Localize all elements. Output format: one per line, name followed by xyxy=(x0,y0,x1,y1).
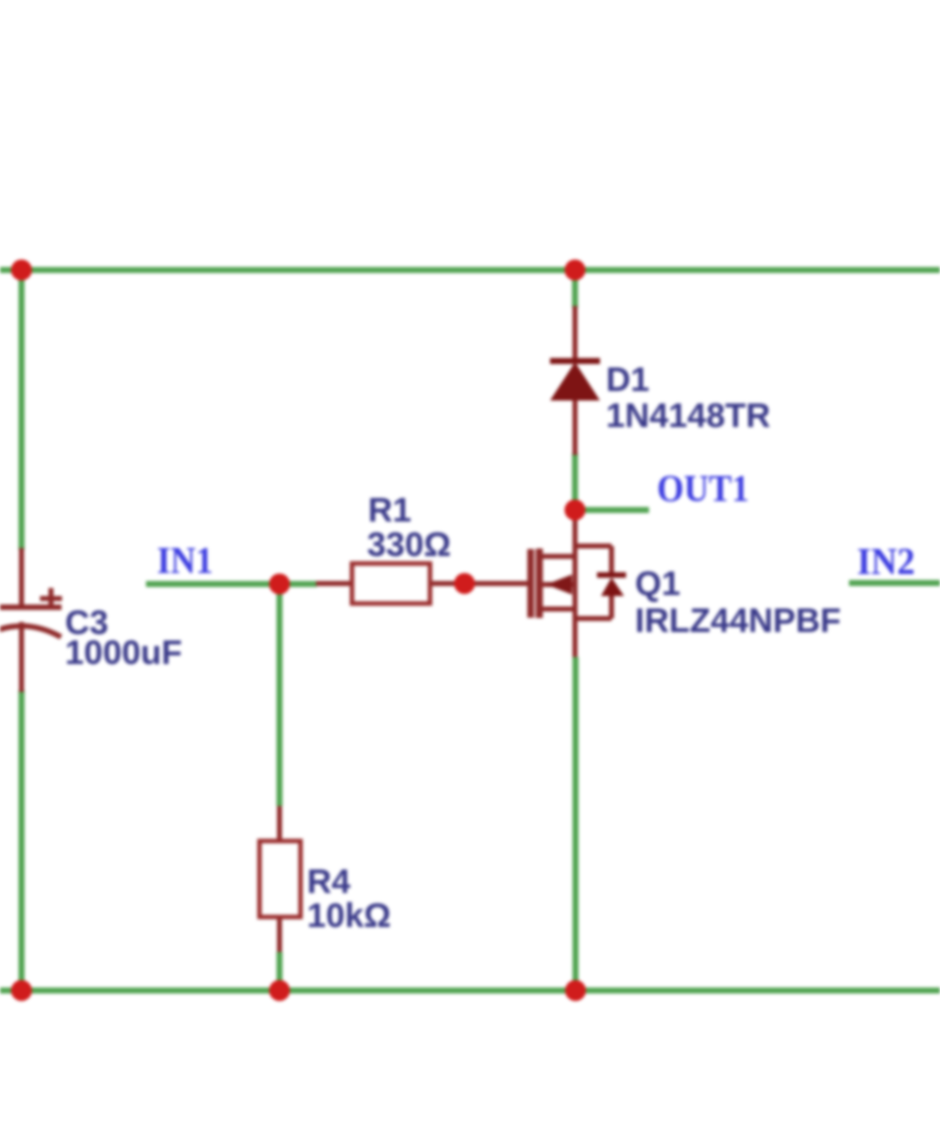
D1 triangle xyxy=(551,363,599,400)
R4 bottom pin xyxy=(277,917,282,952)
Q1 bottom horizontal to body diode xyxy=(575,616,612,621)
wire bottom rail xyxy=(0,988,940,994)
junction R1 gate node xyxy=(454,573,475,594)
Q1 top horizontal to body diode xyxy=(575,544,612,549)
Q1 gate bar xyxy=(528,549,534,618)
D1 top pin (cathode lead) xyxy=(573,306,578,361)
transistor Q1 (N-MOSFET) xyxy=(464,510,612,657)
svg-text:IRLZ44NPBF: IRLZ44NPBF xyxy=(635,602,841,640)
Q1 drain pin xyxy=(573,510,578,546)
resistor R4 xyxy=(260,806,301,952)
svg-text:330Ω: 330Ω xyxy=(367,526,451,564)
C3 plus sign xyxy=(40,596,62,601)
R1 left pin xyxy=(316,581,352,586)
capacitor C3 xyxy=(0,548,62,692)
R1 body xyxy=(352,564,430,604)
Q1 body diode cathode bar xyxy=(597,572,626,578)
svg-text:R1: R1 xyxy=(368,492,411,530)
Q1 body diode triangle xyxy=(601,578,624,597)
C3 top plate xyxy=(0,605,62,611)
Q1 body stub xyxy=(540,582,575,587)
wire left vertical lower (from C3) xyxy=(19,690,25,991)
R4 top pin xyxy=(277,806,282,841)
junction bottom Q1 xyxy=(565,980,586,1001)
diode D1 xyxy=(550,306,600,455)
Q1 channel bar xyxy=(536,549,543,619)
R1 right pin xyxy=(430,581,465,586)
junction top D1 xyxy=(565,260,586,281)
svg-text:D1: D1 xyxy=(606,361,649,399)
svg-text:OUT1: OUT1 xyxy=(657,468,749,510)
svg-text:10kΩ: 10kΩ xyxy=(307,897,391,935)
C3 pin 1 (top lead) xyxy=(19,548,24,607)
wire R4 to bottom rail xyxy=(277,952,283,991)
wire left vertical upper (to C3) xyxy=(19,270,25,550)
C3 curved bottom plate xyxy=(0,626,61,637)
wire top rail to D1 xyxy=(572,270,578,308)
svg-text:Q1: Q1 xyxy=(635,565,680,603)
svg-text:1000uF: 1000uF xyxy=(65,634,182,672)
wire OUT1 stub xyxy=(575,507,649,513)
svg-text:IN1: IN1 xyxy=(157,540,213,582)
junction OUT1 node xyxy=(565,500,586,521)
svg-text:1N4148TR: 1N4148TR xyxy=(606,397,770,435)
wire D1 to OUT1 node xyxy=(572,453,578,510)
C3 pin 2 (bottom lead) xyxy=(19,622,24,692)
wire IN2 xyxy=(849,580,940,586)
wire IN1 junction down to R4 xyxy=(277,584,283,806)
D1 cathode bar xyxy=(550,358,600,364)
Q1 gate pin xyxy=(464,581,530,586)
Q1 source pin xyxy=(573,619,578,658)
wire Q1 source to bottom rail xyxy=(573,657,579,991)
Q1 drain stub xyxy=(540,554,575,559)
svg-text:IN2: IN2 xyxy=(857,541,915,583)
Q1 body arrow xyxy=(546,575,572,595)
D1 bottom pin (anode lead) xyxy=(573,400,578,455)
junction bottom R4 xyxy=(269,980,290,1001)
Q1 source stub xyxy=(540,607,575,612)
Q1 body diode upper lead xyxy=(609,546,614,577)
junction IN1 node xyxy=(269,574,290,595)
wire IN1 xyxy=(146,581,280,587)
resistor R1 xyxy=(316,564,465,604)
Q1 gate bar backfill xyxy=(527,549,543,618)
wire top power rail xyxy=(0,267,940,273)
Q1 body diode lower lead xyxy=(609,596,614,619)
R4 body xyxy=(260,841,301,917)
Q1 center vertical xyxy=(573,546,578,619)
junction bottom-left xyxy=(11,980,32,1001)
wire IN1 junction to R1 xyxy=(280,581,318,587)
svg-text:R4: R4 xyxy=(307,863,351,901)
junction top-left xyxy=(11,260,32,281)
